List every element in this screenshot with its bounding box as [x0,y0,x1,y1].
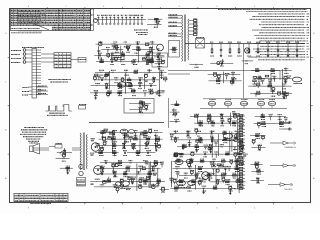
MOV protector [60,151,64,155]
output jacks J3 J4 [79,164,83,168]
svg-text:4: 4 [179,6,180,8]
mixer pot pair row D [120,129,128,134]
send level wires [168,70,280,72]
svg-text:1: 1 [292,207,293,209]
tone stack cluster [95,71,167,73]
pilot lamp circle on bus [244,48,249,53]
trigger symbol [79,106,86,110]
svg-text:6: 6 [103,207,104,209]
driver cluster right [251,70,292,72]
speed pot [121,181,130,186]
input jacks label group [11,50,21,52]
long bus wire lower [89,122,164,124]
svg-text:8: 8 [28,207,29,209]
power tube V4 circle [91,143,99,151]
tremolo pot pair [223,133,233,138]
line out connector J5 [283,122,289,124]
title block [14,193,68,201]
rectifier bridge CR1-CR4 [196,39,205,49]
svg-text:4: 4 [179,207,180,209]
svg-text:3: 3 [216,207,217,209]
control pot row [200,107,287,109]
loudspeaker LS1 [30,146,34,152]
B+ feed vertical wire [243,44,245,98]
right feed cluster upper [250,135,264,137]
meter oval [292,77,301,82]
svg-text:3: 3 [216,6,217,8]
svg-text:7: 7 [66,6,67,8]
right resistor ladder upper [237,116,239,152]
speaker jack J2 [55,145,62,149]
note line under revision table [11,32,42,34]
speaker connection notes text [24,127,44,129]
heater wiring cluster [242,60,253,62]
reverb driver cluster [173,160,242,162]
standby switch cluster [190,64,204,66]
revision history table [11,9,91,31]
mid band right cluster [255,116,286,118]
supply dropping chain [211,44,213,49]
svg-text:6: 6 [103,6,104,8]
svg-text:2: 2 [254,207,255,209]
zone row ticks left [8,56,10,58]
impedance network [57,151,72,153]
svg-text:5: 5 [141,6,142,8]
svg-text:7: 7 [66,207,67,209]
svg-text:700-0810: 700-0810 [284,189,293,191]
power transformer T1 [182,15,183,18]
power switch sub-box [169,41,180,58]
bias network cluster [148,18,163,20]
presence pot cluster [60,167,73,169]
tube V2 envelope [152,53,168,67]
notes text block [218,9,307,11]
svg-text:2: 2 [254,6,255,8]
tremolo waveform diagram [46,105,72,112]
zone column ticks top [46,7,48,9]
svg-text:CHANNEL A: CHANNEL A [284,146,296,149]
svg-text:8: 8 [28,6,29,8]
connector ribbon strip P1 [32,49,36,99]
svg-text:5: 5 [141,207,142,209]
tube V6 circle [202,172,210,180]
power tube V5 circle [94,166,103,175]
vertical feed wire [168,98,170,128]
effects loop cluster [208,74,241,76]
intensity pot pair [177,180,186,185]
sheet border frame [10,9,311,203]
switch matrix S1 [54,53,71,69]
channel A output connector [270,142,283,144]
AC line input wires [168,15,182,17]
fuse and pilot lamp column [189,20,194,22]
bias feed cluster middle [170,132,242,134]
svg-text:1: 1 [292,6,293,8]
dual potentiometer [118,82,126,87]
phase inverter cluster [97,132,163,134]
filter capacitor bank C100 row [95,19,146,21]
B+ supply bus wire [185,43,305,45]
mid box module [112,53,125,60]
preamp stage V1 cluster [96,43,158,45]
oscillator pot pair [175,160,183,165]
footswitch jack connector [268,184,280,186]
channel B output connector [270,165,283,167]
bias supply cluster [210,62,233,64]
output transformer T2 primary [80,133,81,136]
right feed cluster lower [250,163,262,165]
channel select labels [22,87,29,89]
bottom mid part [234,188,243,190]
revision table side column [91,9,94,31]
zone row ticks right [311,56,313,58]
zone column ticks bottom [46,203,48,205]
aux connector box [78,58,86,63]
footswitch circuit box [124,99,154,114]
output stage cluster lower left [100,162,162,164]
right resistor ladder lower [237,158,239,189]
mid band cluster [190,115,241,117]
amplifier title text [48,79,71,81]
bottom small part [160,188,169,190]
